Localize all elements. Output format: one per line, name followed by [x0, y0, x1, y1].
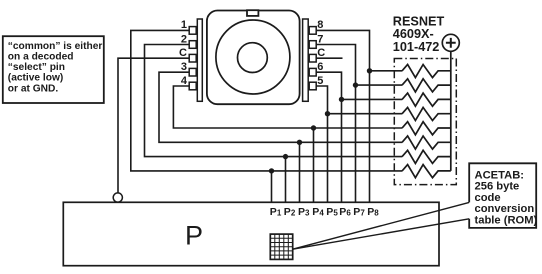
- common bus wire to V+: [450, 51, 452, 171]
- svg-text:“common” is either: “common” is either: [8, 41, 103, 52]
- rotary switch dial inner circle: [238, 43, 268, 73]
- wire pin4 to P4 line and resistor R5: [173, 86, 402, 128]
- resistor R5: [402, 122, 451, 135]
- wire pin5 down to P5: [316, 86, 328, 202]
- svg-text:“select” pin: “select” pin: [8, 62, 65, 73]
- wire resistor R2 lead: [356, 84, 403, 86]
- svg-text:8: 8: [317, 19, 323, 31]
- resistor network label RESNET 4609X-101-472: [393, 15, 445, 54]
- wire right C pin stub: [316, 57, 343, 59]
- svg-text:256 byte: 256 byte: [475, 181, 520, 193]
- junction dot P7: [353, 82, 358, 87]
- svg-text:P4: P4: [312, 206, 324, 218]
- svg-text:4: 4: [181, 75, 188, 87]
- wire pin2 to P2 line and resistor R7: [145, 45, 403, 157]
- rotary switch right pin strip: [303, 19, 309, 101]
- wire resistor R1 lead: [370, 70, 403, 72]
- svg-text:ACETAB:: ACETAB:: [475, 169, 525, 181]
- junction dot P4: [311, 125, 316, 130]
- ROM grid icon: [270, 234, 292, 259]
- svg-text:P2: P2: [284, 206, 296, 218]
- junction dot P1: [269, 168, 274, 173]
- svg-text:6: 6: [317, 61, 323, 73]
- caption box: common note: [3, 36, 104, 103]
- callout line upper to ACETAB box: [293, 202, 470, 249]
- resistor R6: [402, 136, 451, 149]
- wire pin1 to P1 line and resistor R8: [131, 30, 403, 171]
- pin 6 (right): [309, 68, 316, 76]
- junction dot P6: [339, 97, 344, 102]
- svg-text:101-472: 101-472: [393, 40, 440, 54]
- resistor R7: [402, 150, 451, 163]
- svg-text:3: 3: [181, 61, 187, 73]
- wire pin8 down to P8: [316, 30, 370, 202]
- wire P2 vertical: [285, 157, 287, 203]
- pin 1 (left): [189, 27, 196, 35]
- svg-text:P3: P3: [298, 206, 310, 218]
- svg-text:or at GND.: or at GND.: [8, 84, 59, 95]
- junction dot P3: [297, 140, 302, 145]
- wire pin7 down to P7: [316, 45, 356, 203]
- svg-text:on a decoded: on a decoded: [8, 52, 74, 63]
- wire pin6 down to P6: [316, 72, 342, 202]
- wire P3 vertical: [299, 142, 301, 202]
- resistor R1: [402, 65, 451, 78]
- wire resistor R3 lead: [342, 98, 403, 100]
- microprocessor box P: [63, 202, 439, 265]
- svg-text:5: 5: [317, 75, 323, 87]
- pin 3 (left): [189, 68, 196, 76]
- rotary switch index tab: [247, 10, 258, 16]
- svg-text:P7: P7: [353, 206, 365, 218]
- wire resistor R4 lead: [328, 113, 403, 115]
- wire left C pin to select circle: [118, 58, 189, 193]
- rotary switch left pin strip: [197, 19, 202, 101]
- resistor R4: [402, 107, 451, 120]
- svg-text:(active low): (active low): [8, 73, 63, 84]
- pin 7 (right): [309, 41, 316, 49]
- junction dot P5: [325, 111, 330, 116]
- svg-text:C: C: [317, 47, 325, 59]
- pin C (right): [309, 54, 316, 62]
- svg-text:table (ROM): table (ROM): [475, 215, 538, 227]
- svg-text:P1: P1: [270, 206, 282, 218]
- resistor R8: [402, 165, 451, 178]
- pin 5 (right): [309, 82, 316, 90]
- svg-text:C: C: [179, 47, 187, 59]
- svg-text:code: code: [475, 192, 501, 204]
- svg-text:1: 1: [181, 19, 187, 31]
- svg-text:7: 7: [317, 33, 323, 45]
- junction dot P8: [367, 68, 372, 73]
- pin 4 (left): [189, 82, 196, 90]
- ACETAB callout box: [469, 163, 537, 228]
- svg-text:2: 2: [181, 33, 187, 45]
- svg-text:P8: P8: [367, 206, 379, 218]
- rotary switch dial outer circle: [216, 20, 290, 94]
- resistor R3: [402, 93, 451, 106]
- junction dot P2: [283, 154, 288, 159]
- wire P4 vertical: [313, 128, 315, 202]
- resnet dash-dot boundary box: [394, 59, 456, 185]
- resistor R2: [402, 79, 451, 92]
- callout line lower to ACETAB box: [293, 219, 470, 249]
- active-low select pin circle: [113, 193, 122, 202]
- rotary switch S1 body: [207, 11, 300, 105]
- V+ supply circle with plus: [442, 34, 459, 51]
- pin C (left): [189, 54, 196, 62]
- svg-text:P6: P6: [339, 206, 351, 218]
- svg-text:P: P: [185, 221, 203, 251]
- svg-text:P5: P5: [326, 206, 338, 218]
- svg-text:conversion: conversion: [475, 203, 535, 215]
- wire P1 vertical: [271, 171, 273, 202]
- pin 8 (right): [309, 27, 316, 35]
- wire pin3 to P3 line and resistor R6: [159, 72, 402, 142]
- pin 2 (left): [189, 41, 196, 49]
